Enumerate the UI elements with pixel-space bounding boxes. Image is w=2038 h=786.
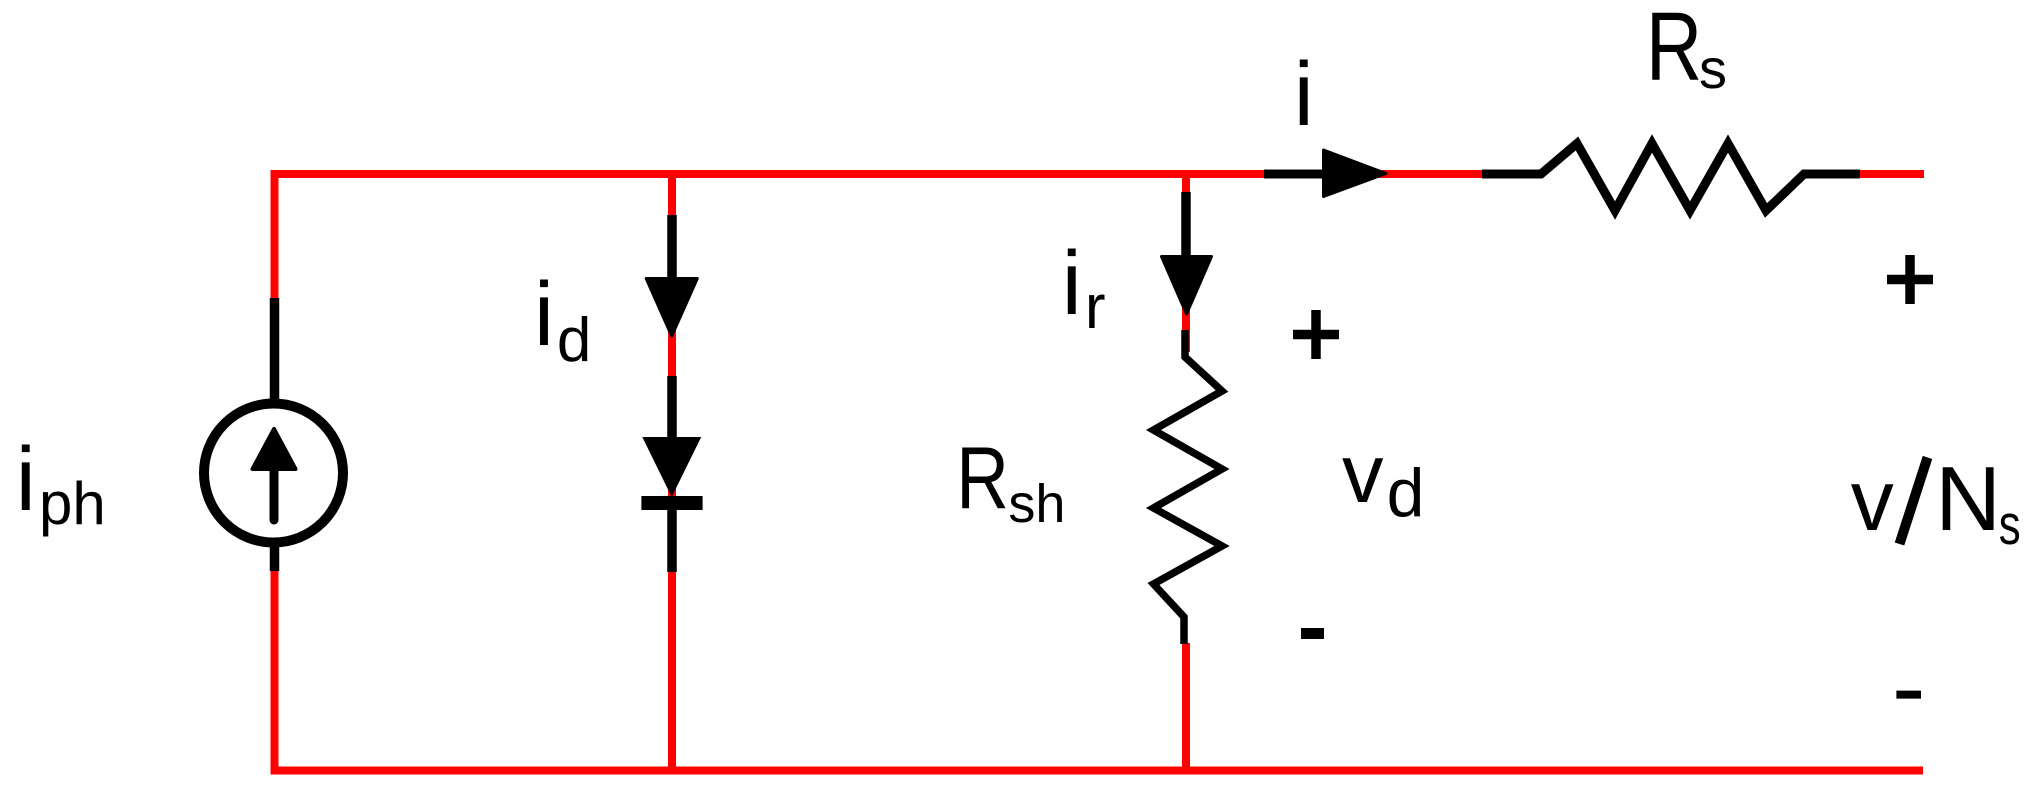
wire: outer loop (top, left, bottom) red [275,174,1924,771]
svg-text:R: R [956,429,1009,527]
svg-text:v: v [1851,453,1894,549]
svg-text:sh: sh [1008,474,1065,534]
label plus of output [1887,255,1933,304]
wire: black lead top of Rsh branch [1181,192,1191,262]
diode D1 cathode bar [641,496,702,510]
svg-text:ph: ph [39,470,106,537]
current source I1 arrow [270,469,279,520]
label minus of output [1896,691,1921,699]
wire: black lead top of diode branch [667,215,677,282]
wire: black lead above current source [270,298,280,410]
wire: Rsh branch red lower [1182,643,1190,770]
svg-text:i: i [534,265,554,365]
resistor Rsh zigzag [1154,330,1223,644]
svg-text:r: r [1085,273,1106,342]
label plus of vd [1293,310,1339,359]
current arrow ir [1162,257,1212,315]
wire: diode branch red [668,174,676,770]
svg-text:i: i [1294,45,1314,145]
svg-text:s: s [1699,37,1727,100]
svg-text:d: d [557,306,591,375]
svg-text:v: v [1342,427,1384,520]
svg-text:d: d [1387,455,1425,531]
current source I1 circle [204,404,343,543]
wire: Rsh branch red upper [1182,174,1190,352]
wire: black lead above diode [667,376,677,440]
svg-text:i: i [1062,234,1082,334]
diode D1 triangle [642,437,701,497]
svg-text:i: i [16,430,36,530]
label Rsh [956,429,1009,527]
svg-text:s: s [1999,492,2021,556]
wire: top-right red segment after Rs [1860,170,1924,178]
label Rs [1646,0,1702,101]
wire: black lead below diode [667,505,677,572]
svg-text:R: R [1646,0,1702,101]
current arrow i on top wire [1264,170,1335,179]
current arrow id [646,279,697,337]
label minus of vd [1301,628,1324,639]
wire: black lead below current source [270,538,280,571]
resistor Rs zigzag [1482,144,1860,211]
svg-text:N: N [1935,449,2001,550]
